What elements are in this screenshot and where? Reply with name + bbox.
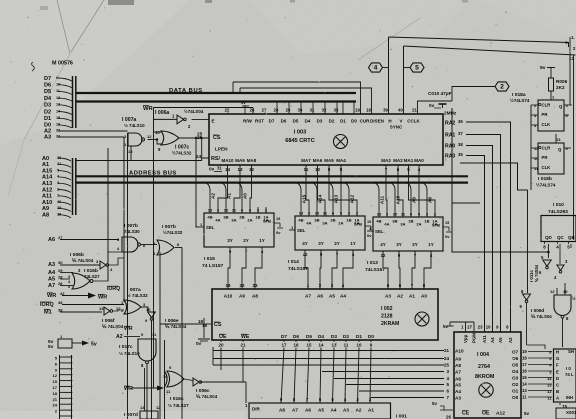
svg-text:A1: A1 (226, 193, 231, 199)
svg-text:A0: A0 (242, 193, 247, 199)
svg-text:I 010: I 010 (553, 202, 564, 208)
address branch labels mux I013 (374, 183, 379, 211)
svg-text:31: 31 (310, 108, 315, 113)
svg-text:X001: X001 (566, 410, 576, 415)
svg-text:A5: A5 (498, 337, 503, 343)
inverter I006d (523, 294, 531, 300)
wire RA3 (466, 156, 485, 333)
svg-text:16: 16 (294, 343, 299, 348)
svg-text:I 0: I 0 (566, 366, 571, 371)
svg-text:STB: STB (263, 219, 271, 224)
nand input stubs (556, 288, 558, 295)
svg-text:MA8: MA8 (247, 158, 257, 163)
svg-text:A9: A9 (239, 294, 245, 299)
svg-text:1Y: 1Y (428, 242, 433, 247)
svg-text:A10: A10 (224, 294, 233, 299)
svg-text:CLR: CLR (542, 146, 551, 151)
wire RA1 (466, 135, 501, 333)
svg-text:I 006d: I 006d (531, 308, 544, 313)
svg-text:18: 18 (53, 391, 58, 396)
wire D0 to data bus (58, 125, 72, 128)
svg-text:33: 33 (56, 135, 60, 139)
svg-text:MA4: MA4 (336, 158, 346, 163)
or I007a32 (124, 300, 141, 314)
svg-text:⅙ 74LS04: ⅙ 74LS04 (102, 324, 124, 329)
svg-text:1B: 1B (424, 219, 429, 224)
connector hexagon 4 (369, 63, 383, 72)
svg-text:2A: 2A (338, 221, 343, 226)
svg-text:O4: O4 (512, 369, 519, 374)
svg-text:30: 30 (298, 108, 303, 113)
svg-text:I 001: I 001 (396, 414, 407, 419)
wire D1 to data bus (58, 118, 72, 121)
light band bottom left (0, 411, 245, 419)
svg-text:2Y: 2Y (412, 242, 417, 247)
svg-text:SEL: SEL (375, 229, 384, 234)
vertical pair 144 (144, 364, 146, 411)
right margin vertical 2 (573, 55, 575, 240)
svg-text:O2: O2 (512, 382, 519, 387)
svg-text:A6: A6 (317, 294, 323, 299)
wire ROM output O1 (528, 390, 552, 392)
junction dot counter QD (547, 251, 550, 254)
wire ROM A9 (213, 358, 444, 360)
vertical from FF area (530, 105, 532, 190)
svg-text:A3: A3 (385, 294, 391, 299)
svg-text:WR: WR (47, 293, 56, 299)
wire inv I006c out (200, 381, 246, 383)
svg-text:15: 15 (367, 220, 371, 224)
arrow 5v (72, 342, 82, 344)
svg-text:3Y: 3Y (227, 238, 232, 243)
ic I004 2764 8KROM (454, 332, 521, 418)
svg-text:A8: A8 (279, 408, 285, 413)
svg-text:D7: D7 (281, 334, 287, 339)
junction dot CS node (195, 137, 197, 139)
svg-text:A5: A5 (455, 383, 461, 388)
svg-text:22: 22 (225, 108, 230, 113)
svg-text:74 LS157: 74 LS157 (202, 263, 224, 269)
long vertical 124 (123, 137, 125, 302)
wire CS node to RS pin (202, 138, 209, 158)
svg-text:A7: A7 (292, 408, 298, 413)
svg-text:⅓ 74LS10: ⅓ 74LS10 (119, 351, 140, 356)
svg-text:INH: INH (566, 395, 573, 400)
junction dot nand out (156, 138, 158, 140)
svg-text:I 004: I 004 (477, 352, 489, 358)
svg-text:D6: D6 (281, 119, 287, 124)
svg-text:74 L: 74 L (565, 372, 574, 377)
svg-text:15: 15 (53, 379, 58, 384)
svg-text:33: 33 (334, 108, 339, 113)
ic X001 shift register (554, 349, 576, 402)
svg-text:OE: OE (219, 334, 227, 340)
wire CS node to mux SEL (196, 138, 198, 227)
wire CCLK (418, 101, 453, 108)
left rom feeder vertical (212, 347, 214, 365)
wire A8 to address bus (58, 215, 71, 218)
connector ladder (59, 355, 61, 419)
ram circled X (415, 312, 429, 326)
svg-text:RA3: RA3 (445, 154, 455, 160)
inverter I006a (177, 115, 184, 124)
inverter I006f (104, 307, 110, 315)
svg-text:D3: D3 (44, 103, 51, 109)
svg-text:10: 10 (146, 307, 151, 312)
svg-text:15: 15 (445, 221, 449, 225)
svg-text:5v: 5v (432, 401, 437, 406)
flipflop I018a (538, 100, 564, 131)
svg-text:1Y: 1Y (259, 238, 264, 243)
wire A12 to address bus (58, 190, 71, 193)
wire xor to inv (184, 379, 193, 381)
svg-text:35: 35 (458, 152, 463, 157)
svg-text:CLK: CLK (542, 122, 552, 127)
wire A14 to address bus (58, 177, 71, 180)
svg-text:WR: WR (98, 295, 107, 301)
ic I015 74LS157 (204, 213, 274, 247)
svg-text:A11: A11 (379, 195, 384, 204)
svg-text:2B: 2B (239, 215, 244, 220)
svg-text:4B: 4B (298, 218, 303, 223)
svg-text:12: 12 (550, 289, 555, 294)
svg-text:QC: QC (557, 235, 564, 240)
svg-text:CUR: CUR (360, 119, 370, 124)
svg-text:3A: 3A (231, 218, 236, 223)
svg-text:2: 2 (500, 84, 504, 91)
svg-text:R/W: R/W (243, 119, 252, 124)
wire ROM output O4 (528, 370, 552, 372)
svg-text:MA2: MA2 (393, 158, 403, 163)
crtc D pin stubs to data bus (276, 102, 278, 115)
counter wires down (547, 242, 549, 244)
connector hexagon 2 (495, 82, 509, 91)
ram mux output drops (228, 251, 230, 289)
svg-text:17: 17 (282, 343, 287, 348)
wire hex4 to H pin (383, 67, 389, 69)
svg-text:½74LS74: ½74LS74 (536, 182, 556, 188)
svg-text:11: 11 (344, 343, 349, 348)
svg-text:CLK: CLK (542, 165, 552, 170)
wire FFa pins (531, 104, 538, 106)
svg-text:⅓ 74LS27: ⅓ 74LS27 (168, 403, 189, 408)
svg-text:38: 38 (458, 142, 463, 147)
svg-text:11: 11 (522, 395, 527, 400)
svg-text:74LS30: 74LS30 (124, 229, 140, 234)
svg-text:21: 21 (412, 108, 417, 113)
svg-text:½74LS32: ½74LS32 (163, 229, 183, 235)
wire I006d out (526, 302, 528, 345)
svg-text:IORQ: IORQ (107, 286, 120, 292)
wire I006e down (151, 320, 153, 419)
wire or I007c output to CS pin (179, 137, 209, 139)
svg-text:13: 13 (522, 388, 527, 393)
svg-text:A6: A6 (305, 408, 311, 413)
capacitor C010 (438, 100, 447, 102)
ffb pin13 stub (555, 134, 557, 143)
wire IORQ (62, 304, 124, 306)
wires A4 A5 A7 to nor (60, 272, 73, 274)
svg-text:2128: 2128 (381, 314, 393, 320)
svg-text:A3: A3 (44, 135, 51, 141)
wire D6 to data bus (58, 85, 72, 88)
wire A3 (58, 136, 124, 138)
svg-text:29: 29 (286, 108, 291, 113)
svg-text:STB: STB (432, 223, 440, 228)
arrow WR (88, 293, 96, 299)
svg-text:D6: D6 (44, 83, 51, 89)
svg-text:5v: 5v (91, 342, 97, 348)
crease mark top-right (358, 18, 420, 60)
svg-text:F: F (556, 363, 559, 368)
svg-text:8KROM: 8KROM (475, 374, 495, 380)
svg-text:I 006a: I 006a (155, 110, 169, 116)
svg-text:0v: 0v (445, 234, 450, 239)
svg-text:MA10: MA10 (222, 158, 234, 163)
wire nor out (93, 252, 122, 281)
svg-text:14: 14 (319, 343, 324, 348)
svg-text:25: 25 (444, 363, 449, 368)
svg-text:M 00576: M 00576 (52, 61, 73, 67)
svg-text:D2: D2 (343, 334, 349, 339)
svg-text:4: 4 (374, 65, 378, 72)
wire hex5 (404, 67, 411, 69)
wire A2 (58, 130, 128, 132)
svg-text:D4: D4 (44, 96, 52, 102)
or I007c (161, 131, 179, 145)
svg-text:A11: A11 (482, 335, 487, 343)
smudge top edge 3 (205, 0, 212, 3)
svg-text:13: 13 (128, 149, 133, 154)
svg-text:E: E (556, 369, 559, 374)
svg-text:MA0: MA0 (414, 158, 424, 163)
svg-text:D4: D4 (318, 334, 324, 339)
wire ROM A4 (359, 390, 444, 392)
wire A2 lower (124, 336, 140, 338)
svg-text:WR: WR (124, 326, 133, 332)
address branch labels mux I015 (205, 183, 210, 207)
wire WR down to inverter (154, 108, 178, 120)
svg-text:A14: A14 (42, 175, 53, 181)
svg-text:23: 23 (478, 325, 483, 330)
crease line top-left (57, 0, 70, 54)
svg-text:2A: 2A (247, 218, 252, 223)
inverter I011c (543, 260, 551, 266)
svg-text:10: 10 (534, 156, 539, 161)
svg-text:3B: 3B (223, 215, 228, 220)
svg-text:D1: D1 (340, 119, 346, 124)
svg-text:CCLK: CCLK (407, 119, 420, 124)
svg-text:A9: A9 (42, 206, 49, 212)
svg-text:A3: A3 (455, 396, 461, 401)
svg-text:A10: A10 (455, 349, 464, 354)
svg-text:O5: O5 (512, 363, 519, 368)
svg-text:36: 36 (458, 119, 463, 124)
svg-text:CS: CS (214, 322, 222, 328)
inverter I006c (193, 378, 199, 386)
svg-text:4A: 4A (384, 222, 389, 227)
wire A11 to address bus (58, 196, 71, 199)
wire A6 (60, 239, 119, 241)
svg-text:MA9: MA9 (235, 158, 245, 163)
nand I007a (128, 133, 142, 146)
data bus horizontal rails (76, 92, 356, 94)
wire nand out (562, 319, 564, 348)
svg-text:15: 15 (522, 375, 527, 380)
wire inv I006b out (108, 258, 124, 265)
rom Vpp PGM stubs to 5v (465, 322, 467, 332)
svg-text:I 018b: I 018b (538, 176, 552, 182)
svg-text:D5: D5 (44, 89, 51, 95)
crease line continuation (24, 54, 70, 140)
vertical feed I006d (527, 190, 529, 293)
svg-text:CS: CS (213, 135, 221, 141)
wire CUR pin 19 (233, 82, 361, 108)
svg-text:4Y: 4Y (302, 241, 307, 246)
wire hex2 to cclk node (452, 87, 495, 102)
svg-text:21: 21 (53, 397, 58, 402)
svg-text:MA1: MA1 (404, 158, 414, 163)
wire 2MHz to counter (452, 108, 548, 252)
svg-text:A3: A3 (343, 408, 349, 413)
ram data drops to I001 (320, 348, 321, 404)
svg-text:V: V (400, 119, 403, 124)
svg-text:I 016c: I 016c (170, 396, 184, 402)
wire ROM output O2 (528, 383, 552, 385)
svg-text:A8: A8 (455, 363, 461, 368)
svg-text:A1: A1 (409, 294, 415, 299)
svg-text:A1: A1 (42, 162, 49, 168)
svg-text:13: 13 (140, 405, 145, 410)
svg-text:A2: A2 (397, 294, 403, 299)
wire D5 to data bus (58, 91, 72, 94)
svg-text:A1: A1 (368, 408, 374, 413)
wire FFb pins (531, 147, 538, 149)
top line to right edge 1 (389, 37, 569, 47)
wire DISEN pin 18 (240, 88, 372, 108)
svg-text:SH: SH (568, 349, 574, 354)
svg-text:20: 20 (219, 343, 224, 348)
svg-text:A5: A5 (318, 408, 324, 413)
svg-text:SEL: SEL (206, 225, 215, 230)
svg-text:O0: O0 (512, 395, 519, 400)
inverter I006b (100, 261, 106, 269)
xor I016c (167, 371, 184, 387)
svg-text:RA0: RA0 (445, 144, 455, 150)
svg-text:STB: STB (354, 222, 362, 227)
svg-text:0v: 0v (276, 230, 281, 235)
svg-text:A0: A0 (421, 294, 427, 299)
nand down right (554, 295, 571, 316)
svg-text:28: 28 (274, 108, 279, 113)
svg-text:0v: 0v (209, 167, 215, 172)
svg-text:12: 12 (547, 389, 552, 394)
svg-text:A4: A4 (331, 408, 337, 413)
svg-text:26: 26 (446, 415, 451, 419)
junction dot top right (565, 41, 567, 43)
wire RA2 (466, 122, 511, 332)
wire A0 to address bus (58, 158, 71, 161)
svg-text:A9: A9 (411, 197, 416, 203)
or I007b 74LS32 (157, 240, 174, 255)
svg-text:1B: 1B (255, 215, 260, 220)
svg-text:0v: 0v (196, 341, 202, 346)
wire ROM A6 (334, 378, 444, 380)
nor I016b (72, 273, 90, 289)
svg-text:SEL: SEL (297, 228, 306, 233)
svg-text:D3: D3 (317, 119, 323, 124)
ic I002 2128 2KRAM (212, 289, 438, 340)
svg-text:5v: 5v (524, 411, 529, 416)
svg-text:CLR: CLR (542, 103, 551, 108)
svg-text:5v: 5v (540, 65, 546, 71)
ic I001 bus transceiver (249, 403, 391, 419)
wire ROM output O5 (528, 364, 552, 366)
svg-text:B: B (556, 389, 559, 394)
wire to RS pin (76, 158, 202, 161)
long vertical 160 (159, 252, 161, 419)
wire R006 to FF (550, 91, 552, 100)
wire D7 to data bus (58, 78, 72, 81)
svg-text:14: 14 (522, 382, 527, 387)
svg-text:31: 31 (217, 166, 222, 171)
svg-text:A2: A2 (210, 193, 215, 199)
svg-text:⅓ 74LS10: ⅓ 74LS10 (124, 123, 145, 128)
top line to right edge 2 (404, 46, 576, 55)
svg-text:DIR: DIR (252, 407, 260, 412)
wires MA10-MA8 to mux I015 (218, 167, 228, 207)
ic I014 74LS157 (295, 216, 365, 250)
svg-text:OE: OE (482, 411, 490, 417)
svg-text:I 017c: I 017c (119, 344, 133, 350)
margin squiggle (32, 62, 35, 71)
nand I007b 74LS30 (122, 237, 138, 252)
svg-text:D1: D1 (356, 334, 362, 339)
svg-text:⅙ 74LS04: ⅙ 74LS04 (165, 324, 187, 329)
svg-text:H: H (388, 119, 391, 124)
svg-text:A10: A10 (42, 200, 52, 206)
svg-text:SYNC: SYNC (390, 125, 403, 130)
svg-text:RST: RST (255, 119, 264, 124)
svg-text:RA1: RA1 (445, 133, 455, 139)
svg-text:QB: QB (568, 235, 575, 240)
ic I013 74LS157 (373, 217, 443, 251)
svg-text:4B: 4B (207, 215, 212, 220)
svg-text:A8: A8 (427, 197, 432, 203)
svg-text:O7: O7 (512, 350, 519, 355)
svg-text:Vpp: Vpp (463, 334, 468, 343)
svg-text:D1: D1 (44, 116, 51, 122)
svg-text:½74LS04: ½74LS04 (184, 108, 204, 114)
svg-text:I 013: I 013 (367, 260, 378, 266)
svg-text:15: 15 (307, 343, 312, 348)
vertical H line (388, 37, 390, 108)
small box below latch (556, 408, 576, 419)
connector hexagon 5 (410, 63, 424, 72)
svg-text:3A: 3A (322, 221, 327, 226)
crease line top-left 2 (71, 0, 104, 52)
svg-text:3Y: 3Y (318, 241, 323, 246)
svg-text:G: G (556, 356, 560, 361)
svg-text:32: 32 (322, 108, 327, 113)
svg-text:A15: A15 (301, 194, 306, 203)
5v box (58, 339, 72, 348)
wire ROM A7 (322, 371, 444, 373)
svg-text:2A: 2A (416, 222, 421, 227)
svg-text:MA3: MA3 (381, 158, 391, 163)
svg-text:WR: WR (143, 106, 153, 112)
svg-text:A13: A13 (42, 181, 52, 187)
